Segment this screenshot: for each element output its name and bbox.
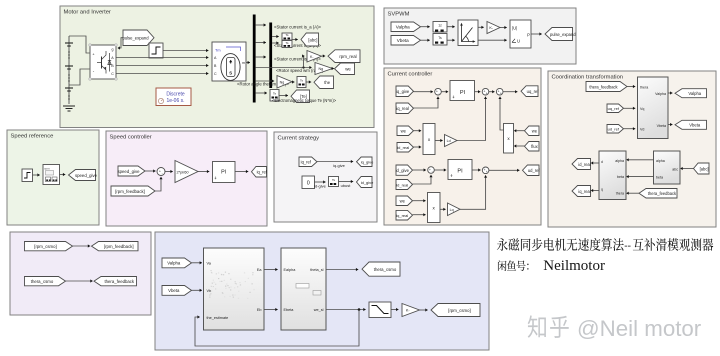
svg-text:Vq: Vq — [640, 107, 644, 111]
svg-text:Ng: Ng — [318, 67, 323, 71]
svg-text:Current controller: Current controller — [388, 71, 433, 77]
svg-text:id_give: id_give — [396, 168, 410, 173]
svg-text:ud_ref: ud_ref — [608, 127, 620, 132]
svg-text:P: P — [527, 33, 530, 38]
svg-text:pulse_expand: pulse_expand — [122, 36, 149, 41]
svg-text:Ts: Ts — [300, 79, 304, 83]
svg-text:1z: 1z — [438, 24, 442, 28]
svg-text:q: q — [601, 188, 603, 192]
svg-text:iq_give: iq_give — [361, 160, 374, 165]
svg-text:id_real: id_real — [578, 162, 590, 167]
svg-text:[abc]: [abc] — [700, 166, 709, 171]
svg-text:Valpha: Valpha — [688, 91, 701, 96]
svg-text:Speed reference: Speed reference — [11, 133, 54, 139]
svg-text:Vbeta: Vbeta — [657, 124, 666, 128]
svg-text:the: the — [324, 80, 330, 85]
svg-text:Ld: Ld — [447, 139, 451, 143]
svg-text:[rpm_csmo]: [rpm_csmo] — [448, 308, 470, 313]
svg-text:SVPWM: SVPWM — [388, 11, 410, 17]
svg-text:0: 0 — [307, 181, 310, 187]
svg-text:Ebeta: Ebeta — [284, 308, 295, 312]
svg-text:Vbeta: Vbeta — [397, 38, 409, 43]
svg-text:iq_real: iq_real — [396, 106, 409, 111]
svg-text:@Neil motor: @Neil motor — [577, 316, 702, 341]
svg-text:[rpm_feedback]: [rpm_feedback] — [104, 244, 134, 249]
svg-text:d: d — [601, 160, 603, 164]
svg-text:Vd: Vd — [640, 128, 644, 132]
svg-text:we: we — [532, 129, 538, 134]
svg-text:Neilmotor: Neilmotor — [543, 258, 605, 274]
svg-text:m: m — [242, 61, 245, 65]
svg-text:thera: thera — [640, 86, 648, 90]
svg-text:Ts: Ts — [332, 178, 336, 182]
svg-text:-: - — [162, 171, 163, 175]
svg-text:PI: PI — [460, 90, 466, 96]
svg-text:we: we — [345, 67, 351, 72]
svg-text:Ts: Ts — [286, 33, 290, 37]
svg-text:id_real: id_real — [397, 145, 409, 150]
svg-text:PI: PI — [457, 169, 463, 175]
svg-text:2*pi/60: 2*pi/60 — [176, 169, 189, 174]
svg-text:uq_ref: uq_ref — [527, 89, 540, 94]
svg-text:+: + — [436, 90, 438, 94]
svg-text:Coordination transformation: Coordination transformation — [552, 74, 624, 80]
svg-text:id_give: id_give — [361, 180, 374, 185]
svg-text:thera_feedback: thera_feedback — [648, 191, 677, 196]
svg-text:speed_give: speed_give — [118, 169, 141, 174]
svg-text:Ts: Ts — [273, 92, 277, 96]
svg-text:we_sl: we_sl — [314, 308, 324, 312]
svg-text:abc: abc — [672, 168, 678, 172]
svg-text:uq_ref: uq_ref — [608, 106, 620, 111]
svg-text:ud_ref: ud_ref — [528, 168, 541, 173]
svg-text:rpm_real: rpm_real — [339, 54, 356, 59]
svg-text:alpha: alpha — [615, 159, 624, 163]
svg-text:Vbeta: Vbeta — [168, 288, 180, 293]
svg-text:Lq: Lq — [450, 208, 454, 212]
svg-text:beta: beta — [617, 175, 624, 179]
svg-text:Vbeta: Vbeta — [689, 123, 701, 128]
svg-text:--: -- — [624, 241, 631, 252]
svg-text:thera_csmo: thera_csmo — [31, 279, 54, 284]
svg-text:U: U — [517, 39, 520, 44]
svg-text:[abc]: [abc] — [308, 37, 317, 42]
svg-text:Valpha: Valpha — [655, 92, 666, 96]
svg-text:Motor and Inverter: Motor and Inverter — [64, 9, 111, 15]
svg-text:Eb: Eb — [257, 308, 262, 312]
svg-text:the_estimate: the_estimate — [207, 316, 229, 320]
svg-text:iq_give: iq_give — [396, 89, 410, 94]
svg-text:+: + — [486, 91, 488, 95]
svg-text:-: - — [439, 91, 440, 95]
svg-text:Vb: Vb — [207, 289, 212, 293]
svg-text:S: S — [229, 71, 232, 76]
svg-text:iq_ref: iq_ref — [257, 170, 268, 175]
svg-text:iq-give: iq-give — [333, 163, 346, 168]
svg-text:|U|: |U| — [512, 26, 517, 31]
svg-text:Tm: Tm — [215, 49, 220, 53]
svg-text:we: we — [401, 129, 407, 134]
svg-text:<Stator current is_a (A)>: <Stator current is_a (A)> — [274, 25, 322, 30]
svg-text:iq_real: iq_real — [396, 213, 408, 218]
svg-text:flux: flux — [531, 144, 538, 149]
svg-text:Valpha: Valpha — [167, 261, 181, 266]
svg-text:Ealpha: Ealpha — [284, 268, 297, 272]
svg-text:g: g — [112, 48, 114, 52]
svg-text:Speed controller: Speed controller — [110, 134, 152, 140]
svg-text:PI: PI — [221, 170, 226, 176]
svg-text:Current strategy: Current strategy — [278, 135, 320, 141]
svg-text:Discrete: Discrete — [166, 92, 185, 98]
svg-text:Ts: Ts — [438, 36, 442, 40]
svg-text:Ts: Ts — [286, 41, 290, 45]
svg-text:thera_feedback: thera_feedback — [104, 279, 134, 284]
svg-text:+: + — [429, 168, 431, 172]
svg-text:iq_ref: iq_ref — [301, 160, 312, 165]
svg-text:speed_give: speed_give — [75, 173, 98, 178]
svg-text:+: + — [159, 169, 161, 173]
svg-text:rpm: rpm — [45, 167, 51, 171]
svg-text:pulse_expand: pulse_expand — [550, 32, 576, 37]
svg-text:alpha: alpha — [656, 159, 665, 163]
svg-text:[rpm_feedback]: [rpm_feedback] — [115, 189, 145, 194]
svg-text:Ng: Ng — [280, 80, 285, 84]
svg-text:+: + — [486, 170, 488, 174]
svg-text:id-give: id-give — [314, 183, 327, 188]
svg-text:thera_feedback: thera_feedback — [589, 84, 618, 89]
svg-text:<Electromagnetic torque Te (N*: <Electromagnetic torque Te (N*m)> — [272, 98, 337, 103]
svg-text:+: + — [500, 91, 502, 95]
svg-text:1e-06 s.: 1e-06 s. — [166, 98, 184, 104]
svg-text:C: C — [214, 72, 217, 76]
svg-text:-: - — [432, 170, 433, 174]
svg-text:id_real: id_real — [396, 182, 408, 187]
svg-text:we: we — [400, 199, 406, 204]
svg-text:iq_real: iq_real — [578, 189, 590, 194]
svg-text:thera: thera — [616, 191, 624, 195]
svg-text:thera_csmo: thera_csmo — [374, 267, 397, 272]
svg-text:C: C — [111, 72, 114, 76]
svg-text:[rpm_csmo]: [rpm_csmo] — [34, 244, 56, 249]
svg-text:beta: beta — [656, 176, 663, 180]
svg-text:Valpha: Valpha — [396, 25, 410, 30]
svg-text:ubust: ubust — [341, 183, 352, 188]
svg-text:theta_sl: theta_sl — [310, 268, 323, 272]
